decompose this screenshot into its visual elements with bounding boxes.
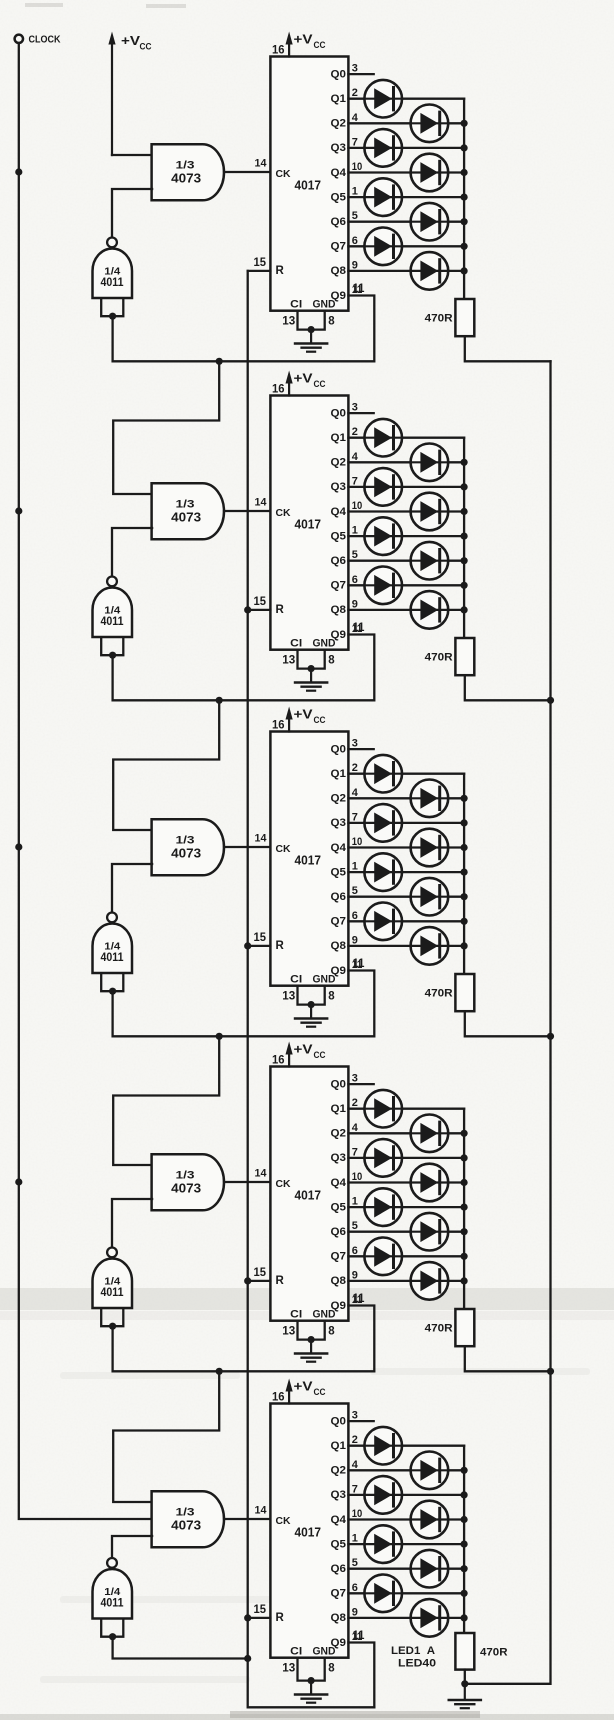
wire: resistor R5 bottom to junction: [464, 1670, 466, 1684]
svg-text:Q7: Q7: [331, 241, 347, 253]
wire: Q5 row to LED bus: [348, 871, 464, 873]
svg-text:CC: CC: [140, 42, 152, 52]
LED D19: [364, 804, 402, 842]
junction: Q9 line to next stage: [216, 1368, 223, 1375]
svg-text:Q6: Q6: [331, 555, 347, 567]
svg-text:9: 9: [352, 598, 358, 610]
junction: LED row on cathode bus: [461, 144, 468, 151]
svg-text:LED1 A: LED1 A: [391, 1645, 435, 1657]
wire: Q3 row to LED bus: [348, 486, 464, 488]
wire: resistor bottom to right bus: [465, 675, 551, 700]
resistor R5 470R: [455, 1633, 474, 1670]
svg-text:9: 9: [352, 1606, 358, 1618]
resistor R3 470R: [455, 974, 474, 1011]
svg-text:CC: CC: [314, 40, 326, 50]
svg-text:13: 13: [282, 1662, 295, 1674]
svg-text:Q6: Q6: [331, 1226, 347, 1238]
junction: LED row on cathode bus: [461, 557, 468, 564]
svg-text:470R: 470R: [425, 312, 453, 324]
svg-text:Q3: Q3: [331, 142, 347, 154]
junction: LED row on cathode bus: [461, 1204, 468, 1211]
LED D31: [364, 1238, 402, 1276]
svg-text:Q8: Q8: [331, 604, 347, 616]
svg-text:R: R: [276, 940, 285, 952]
junction: Q9 line to next stage: [216, 697, 223, 704]
svg-text:Q5: Q5: [331, 866, 347, 878]
wire: 4073 bottom input from 4011 output: [112, 1199, 152, 1248]
wire: Q9 pin 11 back to 4011 input: [113, 1306, 375, 1372]
svg-text:4017: 4017: [295, 852, 322, 867]
svg-text:1: 1: [352, 525, 358, 537]
svg-text:6: 6: [352, 1245, 358, 1257]
junction: LED row on cathode bus: [461, 942, 468, 949]
far-right LED return bus: [465, 361, 551, 1684]
svg-text:10: 10: [352, 161, 363, 173]
junction: LED row on cathode bus: [461, 819, 468, 826]
junction: R pin on reset bus: [244, 1277, 251, 1284]
wire: Q1 row to LED bus: [348, 1108, 464, 1110]
junction: 4011 inputs tied: [109, 652, 116, 659]
LED D13: [364, 517, 402, 555]
svg-text:CC: CC: [314, 379, 326, 389]
LED D18: [411, 780, 449, 818]
LED D4: [411, 154, 449, 192]
wire: Q3 row to LED bus: [348, 1494, 464, 1496]
LED D16: [411, 591, 449, 629]
junction: Q9 line to next stage: [216, 358, 223, 365]
junction: LED row on cathode bus: [461, 795, 468, 802]
LED D1: [364, 80, 402, 118]
wire: 4073 output to 4017 CK pin 14: [224, 510, 270, 512]
LED D33: [364, 1427, 402, 1465]
svg-text:Q3: Q3: [331, 481, 347, 493]
ground (4017 supply): [310, 1340, 312, 1353]
wire: resistor bottom to right bus: [465, 336, 551, 361]
4017 ground bracket pins 13 and 8: [298, 1321, 325, 1340]
wire: 4073 output to 4017 CK pin 14: [224, 1518, 270, 1520]
svg-text:15: 15: [254, 257, 267, 269]
wire: Q4 row to LED bus: [348, 846, 464, 848]
junction: R pin on reset bus: [244, 1614, 251, 1621]
LED D9: [364, 419, 402, 457]
svg-text:Q2: Q2: [331, 1128, 347, 1140]
wire: Q8 row to LED bus: [348, 270, 464, 272]
svg-text:Q4: Q4: [331, 1514, 347, 1526]
svg-text:1: 1: [352, 1196, 358, 1208]
svg-text:6: 6: [352, 910, 358, 922]
wire: Q8 row to LED bus: [348, 1617, 464, 1619]
ground (4017 supply): [310, 1005, 312, 1018]
svg-text:9: 9: [352, 1269, 358, 1281]
IC U3 4017 decade counter: [270, 732, 348, 986]
wire: Q2 row to LED bus: [348, 1469, 464, 1471]
svg-text:4073: 4073: [171, 847, 201, 861]
4011 input bracket (both inputs tied): [101, 974, 123, 992]
wire: Q6 row to LED bus: [348, 1231, 464, 1233]
wire: Q4 row to LED bus: [348, 1518, 464, 1520]
LED D12: [411, 493, 449, 531]
junction: R pin on reset bus: [244, 606, 251, 613]
LED D6: [411, 203, 449, 241]
svg-text:6: 6: [352, 1582, 358, 1594]
svg-text:CK: CK: [276, 168, 291, 180]
junction: LED row on cathode bus: [461, 169, 468, 176]
scan artifact: bottom edge smudge: [0, 1714, 614, 1720]
svg-text:4: 4: [352, 787, 359, 799]
svg-text:CI: CI: [290, 1308, 302, 1320]
svg-text:+V: +V: [294, 372, 314, 386]
svg-text:4017: 4017: [295, 1524, 322, 1539]
svg-text:4: 4: [352, 451, 359, 463]
junction: stage resistor to right bus: [547, 697, 554, 704]
junction: clock bus to stage AND gate: [15, 843, 22, 850]
junction: 4011 inputs tied: [109, 313, 116, 320]
svg-text:R: R: [276, 265, 285, 277]
svg-text:CK: CK: [276, 1515, 291, 1527]
ground (4017 supply): [310, 669, 312, 682]
junction: R pin on reset bus: [244, 942, 251, 949]
wire: Q6 row to LED bus: [348, 560, 464, 562]
svg-text:5: 5: [352, 1220, 358, 1232]
svg-text:Q7: Q7: [331, 916, 347, 928]
svg-text:2: 2: [352, 762, 358, 774]
wire: carry to next stage AND gate top input: [113, 361, 219, 494]
junction: LED row on cathode bus: [461, 218, 468, 225]
NAND gate U4b 1/4 4011 (inverter, bubble on top): [107, 1248, 117, 1258]
wire: Q2 row to LED bus: [348, 461, 464, 463]
junction: LED row on cathode bus: [461, 267, 468, 274]
svg-text:13: 13: [282, 654, 295, 666]
wire: Q8 row to LED bus: [348, 609, 464, 611]
svg-text:15: 15: [254, 596, 267, 608]
LED D15: [364, 567, 402, 605]
AND gate U3a 1/3 4073: [152, 819, 224, 875]
svg-text:GND: GND: [313, 637, 336, 649]
4011 input bracket (both inputs tied): [101, 1309, 123, 1327]
LED D23: [364, 903, 402, 941]
AND gate U1a 1/3 4073: [152, 144, 224, 200]
svg-text:Q4: Q4: [331, 167, 347, 179]
LED D29: [364, 1188, 402, 1226]
svg-text:9: 9: [352, 259, 358, 271]
wire: Q4 row to LED bus: [348, 510, 464, 512]
svg-text:470R: 470R: [425, 651, 453, 663]
junction: LED row on cathode bus: [461, 533, 468, 540]
svg-text:Q8: Q8: [331, 1275, 347, 1287]
wire: Q8 row to LED bus: [348, 1280, 464, 1282]
junction: LED row on cathode bus: [461, 1491, 468, 1498]
svg-text:Q0: Q0: [331, 407, 347, 419]
svg-text:16: 16: [272, 718, 285, 732]
svg-text:Q6: Q6: [331, 216, 347, 228]
LED D5: [364, 178, 402, 216]
resistor R2 470R: [455, 638, 474, 675]
junction: LED row on cathode bus: [461, 459, 468, 466]
svg-text:CK: CK: [276, 507, 291, 519]
junction: LED row on cathode bus: [461, 508, 468, 515]
svg-text:14: 14: [255, 1167, 268, 1179]
svg-text:Q4: Q4: [331, 842, 347, 854]
svg-text:GND: GND: [313, 1308, 336, 1320]
svg-text:1: 1: [352, 861, 358, 873]
wire: Q1 row to LED bus: [348, 98, 464, 100]
junction: stage 5 reset feed on bus: [244, 1655, 251, 1662]
LED D21: [364, 853, 402, 891]
IC U5 4017 decade counter: [270, 1404, 348, 1658]
junction: LED row on cathode bus: [461, 844, 468, 851]
svg-text:CK: CK: [276, 843, 291, 855]
junction: LED row on cathode bus: [461, 582, 468, 589]
junction: stage resistor to right bus: [547, 1368, 554, 1375]
junction: LED row on cathode bus: [461, 1130, 468, 1137]
svg-text:4073: 4073: [171, 1182, 201, 1196]
svg-text:16: 16: [272, 43, 285, 57]
svg-text:3: 3: [352, 402, 358, 414]
4017 ground bracket pins 13 and 8: [298, 1658, 325, 1681]
junction: LED row on cathode bus: [461, 1253, 468, 1260]
junction: stage resistor to right bus: [547, 1033, 554, 1040]
LED D2: [411, 105, 449, 143]
svg-text:7: 7: [352, 136, 358, 148]
svg-text:Q5: Q5: [331, 530, 347, 542]
junction: 4011 inputs tied: [109, 1633, 116, 1640]
svg-text:11: 11: [353, 1293, 366, 1305]
junction: 4011 inputs tied: [109, 1323, 116, 1330]
svg-text:15: 15: [254, 1604, 267, 1616]
LED D37: [364, 1525, 402, 1563]
junction: right bus to resistor R5 bottom: [461, 1680, 468, 1687]
LED D3: [364, 129, 402, 167]
wire: R pin 15 to reset bus: [248, 1617, 271, 1619]
svg-text:7: 7: [352, 811, 358, 823]
junction: LED row on cathode bus: [461, 194, 468, 201]
junction: pins 13+8 tied: [308, 1336, 315, 1343]
svg-text:CC: CC: [314, 1387, 326, 1397]
junction: pins 13+8 tied: [308, 326, 315, 333]
NAND gate U3b 1/4 4011 (inverter, bubble on top): [107, 913, 117, 923]
wire: 4073 bottom input from 4011 output: [112, 864, 152, 913]
svg-text:11: 11: [353, 958, 366, 970]
junction: LED row on cathode bus: [461, 918, 468, 925]
svg-text:11: 11: [353, 622, 366, 634]
LED D25: [364, 1090, 402, 1128]
svg-text:3: 3: [352, 1073, 358, 1085]
wire: Q6 row to LED bus: [348, 896, 464, 898]
svg-text:8: 8: [328, 1662, 335, 1674]
LED D35: [364, 1476, 402, 1514]
svg-text:3: 3: [352, 1410, 358, 1422]
junction: LED row on cathode bus: [461, 1277, 468, 1284]
svg-text:4: 4: [352, 112, 359, 124]
svg-text:8: 8: [328, 315, 335, 327]
CLOCK input terminal: [15, 35, 23, 43]
AND gate U4a 1/3 4073: [152, 1154, 224, 1210]
wire: Q5 row to LED bus: [348, 535, 464, 537]
LED D27: [364, 1139, 402, 1177]
wire: R pin 15 to reset bus: [248, 1280, 271, 1282]
wire: Q5 row to LED bus: [348, 1206, 464, 1208]
wire: Q0 stub pin 3: [348, 412, 373, 414]
wire: Q0 stub pin 3: [348, 1083, 373, 1085]
wire: Q9 pin 11 back to 4011 input: [113, 635, 375, 701]
svg-text:13: 13: [282, 1325, 295, 1337]
LED D32: [411, 1262, 449, 1300]
LED D22: [411, 878, 449, 916]
svg-text:Q4: Q4: [331, 1177, 347, 1189]
svg-text:Q3: Q3: [331, 1489, 347, 1501]
svg-text:Q2: Q2: [331, 118, 347, 130]
IC U4 4017 decade counter: [270, 1067, 348, 1321]
junction: clock bus to stage AND gate: [15, 1178, 22, 1185]
svg-text:R: R: [276, 1612, 285, 1624]
junction: 4011 inputs tied: [109, 988, 116, 995]
wire: CLOCK bus down the page to stage 5 AND gate input: [19, 43, 152, 1519]
svg-text:Q8: Q8: [331, 940, 347, 952]
svg-text:7: 7: [352, 1146, 358, 1158]
wire: Q3 row to LED bus: [348, 147, 464, 149]
wire: Q1 row to LED bus: [348, 437, 464, 439]
junction: Q9 line to next stage: [216, 1033, 223, 1040]
LED D28: [411, 1164, 449, 1202]
AND gate U2a 1/3 4073: [152, 483, 224, 539]
svg-text:2: 2: [352, 87, 358, 99]
NAND gate U5b 1/4 4011 (inverter, bubble on top): [107, 1558, 117, 1568]
svg-text:LED40: LED40: [398, 1658, 436, 1670]
svg-text:3: 3: [352, 738, 358, 750]
LED D20: [411, 829, 449, 867]
scan artifact: ghost text lines: [370, 1368, 590, 1375]
wire: Q5 row to LED bus: [348, 196, 464, 198]
wire: resistor bottom to right bus: [465, 1346, 551, 1371]
LED cathode bus: [463, 438, 465, 638]
svg-text:CI: CI: [290, 1645, 302, 1657]
svg-text:GND: GND: [313, 298, 336, 310]
wire: 4073 bottom input from 4011 output: [112, 189, 152, 238]
junction: LED row on cathode bus: [461, 1565, 468, 1572]
svg-text:1/3: 1/3: [176, 159, 195, 171]
power +Vcc arrow on 4017 pin 16: [288, 716, 290, 732]
wire: Q2 row to LED bus: [348, 797, 464, 799]
junction: LED row on cathode bus: [461, 1228, 468, 1235]
LED D7: [364, 228, 402, 266]
svg-text:4073: 4073: [171, 1519, 201, 1533]
svg-text:CC: CC: [314, 1050, 326, 1060]
svg-text:Q2: Q2: [331, 793, 347, 805]
svg-text:1/3: 1/3: [176, 1169, 195, 1181]
scan artifact: ghost band (bleed-through headline): [0, 1288, 614, 1310]
svg-text:14: 14: [255, 496, 268, 508]
svg-text:Q0: Q0: [331, 743, 347, 755]
svg-text:14: 14: [255, 1504, 268, 1516]
svg-text:10: 10: [352, 500, 363, 512]
LED cathode bus: [463, 1446, 465, 1633]
svg-text:8: 8: [328, 990, 335, 1002]
svg-text:16: 16: [272, 382, 285, 396]
LED D40: [411, 1599, 449, 1637]
LED D14: [411, 542, 449, 580]
wire: Q7 row to LED bus: [348, 920, 464, 922]
svg-text:Q6: Q6: [331, 1563, 347, 1575]
svg-text:11: 11: [353, 1630, 366, 1642]
junction: LED row on cathode bus: [461, 1154, 468, 1161]
wire: carry to next stage AND gate top input: [113, 1036, 219, 1165]
svg-text:15: 15: [254, 1267, 267, 1279]
svg-text:Q1: Q1: [331, 768, 347, 780]
svg-text:Q3: Q3: [331, 817, 347, 829]
svg-text:9: 9: [352, 934, 358, 946]
wire: 4073 output to 4017 CK pin 14: [224, 846, 270, 848]
svg-text:470R: 470R: [425, 987, 453, 999]
junction: LED row on cathode bus: [461, 483, 468, 490]
svg-text:Q7: Q7: [331, 1251, 347, 1263]
NAND gate U2b 1/4 4011 (inverter, bubble on top): [107, 577, 117, 587]
LED D8: [411, 252, 449, 290]
junction: LED row on cathode bus: [461, 120, 468, 127]
wire: +Vcc feed to stage 1 AND gate top input: [112, 154, 152, 156]
svg-text:4011: 4011: [101, 615, 125, 628]
wire: 4073 output to 4017 CK pin 14: [224, 171, 270, 173]
svg-text:14: 14: [255, 157, 268, 169]
junction: LED row on cathode bus: [461, 1516, 468, 1523]
LED D17: [364, 755, 402, 793]
svg-text:Q0: Q0: [331, 1078, 347, 1090]
junction: pins 13+8 tied: [308, 665, 315, 672]
svg-text:8: 8: [328, 1325, 335, 1337]
wire: Q2 row to LED bus: [348, 1132, 464, 1134]
svg-text:Q5: Q5: [331, 191, 347, 203]
wire: Q5 row to LED bus: [348, 1543, 464, 1545]
svg-text:10: 10: [352, 1171, 363, 1183]
svg-text:4011: 4011: [101, 951, 125, 964]
svg-text:4011: 4011: [101, 276, 125, 289]
svg-text:7: 7: [352, 475, 358, 487]
4017 ground bracket pins 13 and 8: [298, 650, 325, 669]
wire: Q0 stub pin 3: [348, 1420, 373, 1422]
svg-text:3: 3: [352, 63, 358, 75]
svg-text:CI: CI: [290, 298, 302, 310]
LED cathode bus: [463, 774, 465, 974]
LED cathode bus: [463, 99, 465, 299]
wire: Q9 pin 11 back to 4011 input: [113, 971, 375, 1037]
wire: 4011 input of stage 5 to reset bus: [113, 1637, 248, 1659]
junction: LED row on cathode bus: [461, 1590, 468, 1597]
svg-text:4073: 4073: [171, 172, 201, 186]
svg-text:13: 13: [282, 315, 295, 327]
wire: Q6 row to LED bus: [348, 221, 464, 223]
svg-text:15: 15: [254, 932, 267, 944]
svg-text:Q4: Q4: [331, 506, 347, 518]
svg-text:7: 7: [352, 1483, 358, 1495]
ground (4017 supply): [310, 1681, 312, 1694]
4011 input bracket (both inputs tied): [101, 299, 123, 317]
svg-text:Q3: Q3: [331, 1152, 347, 1164]
wire: Q7 row to LED bus: [348, 245, 464, 247]
svg-text:Q6: Q6: [331, 891, 347, 903]
wire: Q1 row to LED bus: [348, 773, 464, 775]
svg-text:+V: +V: [294, 1043, 314, 1057]
svg-text:Q2: Q2: [331, 1465, 347, 1477]
4017 ground bracket pins 13 and 8: [298, 986, 325, 1005]
svg-text:1/3: 1/3: [176, 498, 195, 510]
junction: clock bus to stage AND gate: [15, 168, 22, 175]
svg-text:4017: 4017: [295, 1187, 322, 1202]
ground (right, output common): [464, 1684, 466, 1700]
svg-text:5: 5: [352, 210, 358, 222]
svg-text:Q0: Q0: [331, 1415, 347, 1427]
svg-text:2: 2: [352, 1097, 358, 1109]
svg-text:470R: 470R: [425, 1322, 453, 1334]
4011 input bracket (both inputs tied): [101, 1619, 123, 1637]
